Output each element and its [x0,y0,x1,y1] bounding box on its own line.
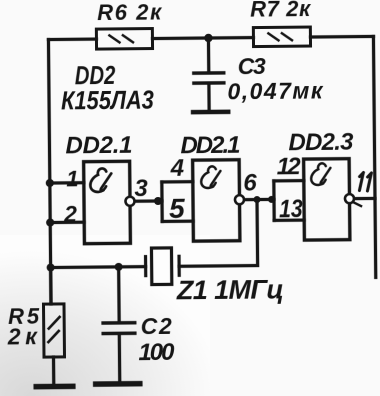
inverter bubble gate1 [125,197,134,206]
inverter bubble gate2 [235,195,244,204]
junction top node [204,34,212,42]
svg-text:C3: C3 [238,53,266,79]
К155ЛА3 label [61,86,155,116]
svg-text:5: 5 [169,193,185,224]
svg-text:6: 6 [243,170,257,197]
pin 4 stub [162,180,193,184]
svg-text:13: 13 [279,194,303,222]
pin 5 stub [162,220,193,224]
gate DD2.3 [304,159,350,240]
pin 13 stub [274,218,304,222]
svg-text:DD2.1: DD2.1 [65,132,132,160]
wire top rail [48,37,96,41]
pin 2 stub [50,221,84,225]
pin 13 label [279,194,303,222]
ground bar C2 [96,381,140,387]
junction node R5 [47,263,55,271]
gate DD2.1 element 1 [84,161,131,243]
pin 11 label [359,172,371,191]
pin 1 stub [50,181,84,185]
svg-text:R7 2к: R7 2к [250,0,312,22]
wire stub tick [353,202,361,206]
DD2 label [75,60,116,89]
inverter bubble gate3 [345,194,354,203]
ground bar R5 [36,384,72,390]
resistor R5 [43,267,65,384]
svg-text:DD2.3: DD2.3 [288,129,354,157]
svg-text:C2: C2 [141,313,172,339]
svg-text:4: 4 [170,155,185,182]
gate DD2.1 second element [193,160,240,241]
svg-text:12: 12 [277,153,302,180]
wire gate3 out to right rail [354,197,374,200]
svg-text:2: 2 [63,201,77,227]
wire tie pins 4-5 [160,182,164,221]
svg-text:DD2.1: DD2.1 [180,132,240,160]
wire crystal left to bus [51,265,146,269]
svg-text:R6 2к: R6 2к [97,0,163,25]
junction node pin45 [154,197,162,205]
pin 12 stub [274,179,304,183]
wire right vertical [373,36,375,277]
junction pin1 [46,179,54,187]
ampersand gate1 [90,168,111,192]
crystal Z1 [145,248,179,285]
capacitor C3 [192,38,228,112]
junction node 6 [253,196,260,203]
svg-text:Z1 1МГц: Z1 1МГц [176,274,284,305]
ampersand gate3 [311,163,331,185]
svg-text:1: 1 [66,166,78,191]
junction pin2 [46,218,54,226]
wire left vertical bus [48,40,51,304]
resistor R7 [253,27,310,47]
svg-text:3: 3 [134,175,148,202]
ampersand gate2 [201,166,221,188]
wire gate1 out to gate2 in [135,199,162,203]
wire gate2 out [244,198,273,202]
wire tie pins 12-13 [272,181,276,220]
svg-text:100: 100 [138,339,175,366]
junction node pin1213 [268,196,275,203]
wire node6 down to crystal [179,200,258,267]
junction node C2 [115,263,123,271]
resistor R6 [96,29,152,50]
svg-text:К155ЛА3: К155ЛА3 [61,86,155,116]
capacitor C2 [103,267,136,382]
